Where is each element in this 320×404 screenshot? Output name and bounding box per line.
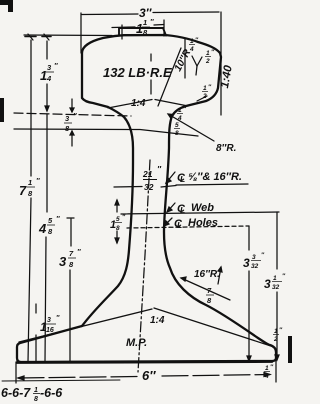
svg-text:6″: 6″ [142,368,156,383]
svg-text:″: ″ [77,247,81,256]
right extension vertical (1:40 ref) [220,12,222,115]
svg-text:1: 1 [178,107,182,114]
head underside slope ext right [155,100,188,107]
svg-text:1: 1 [136,22,143,36]
svg-text:8: 8 [175,130,179,137]
7/8 arrow [218,267,221,284]
CL holes line [127,226,249,228]
svg-text:32: 32 [272,284,280,291]
svg-text:8: 8 [34,396,38,403]
chain line 7-1/8 [30,40,32,176]
svg-text:″: ″ [157,164,162,174]
label 1/2 lower [202,84,212,100]
10R leader slant [158,48,181,106]
dim 3/8 arrows [71,99,73,112]
svg-text:″: ″ [208,84,212,91]
svg-text:1: 1 [274,328,278,335]
svg-text:132 LB·R.E: 132 LB·R.E [103,65,172,80]
svg-text:8: 8 [116,225,120,232]
svg-text:Holes: Holes [188,217,218,229]
arrow of 5/8 & 16R label [166,172,175,183]
svg-text:L: L [180,174,185,184]
head brand boss [119,28,166,36]
svg-text:2: 2 [273,336,278,343]
head top extension line [24,34,112,37]
svg-text:3: 3 [65,114,70,123]
svg-text:⅝″& 16″R.: ⅝″& 16″R. [188,171,242,183]
label 21/32 web [142,164,162,192]
label 3-1/32 [264,273,286,291]
svg-text:3: 3 [252,254,256,261]
dim 3-3/32 vertical [248,226,250,250]
label 7/8 base [206,286,214,305]
svg-text:7: 7 [19,183,27,198]
label 1/2 corner upper [205,49,215,65]
label 3-7/8 [59,247,81,269]
svg-text:1: 1 [206,50,210,57]
head underside slope ext left [108,100,152,109]
svg-text:″: ″ [279,327,283,334]
svg-text:″: ″ [122,214,126,221]
svg-text:8″R.: 8″R. [216,143,236,154]
svg-text:8: 8 [69,260,74,269]
label 1-1/8 [136,17,154,37]
fishing line lower [14,129,198,136]
svg-text:3: 3 [47,317,51,324]
svg-text:6-6-7: 6-6-7 [1,386,31,400]
web thickness ticks 21/32 [114,186,142,189]
svg-text:3: 3 [264,277,271,291]
label CL Web [177,202,214,215]
label drilling 6-6-7-1/8-6-6 [1,386,63,403]
svg-text:″: ″ [211,49,215,56]
right base extension [275,361,277,382]
svg-text:4: 4 [46,74,52,83]
svg-text:3: 3 [47,63,52,72]
dim 1-5/8 web vertical [116,200,118,212]
16in R leader [181,278,230,300]
svg-text:1: 1 [265,365,269,372]
head centerline dashes [150,54,152,61]
svg-text:1: 1 [143,18,147,27]
dim 1-1/8 lines [112,26,135,29]
svg-text:″: ″ [261,252,265,259]
label 1-3/4 [40,61,58,83]
label 5/8 under head [174,122,180,137]
svg-text:1:4: 1:4 [150,315,165,326]
label 3/8 fishing [64,111,77,133]
svg-text:1: 1 [28,178,32,187]
svg-text:21: 21 [142,169,153,179]
svg-text:″: ″ [56,214,60,223]
svg-text:″: ″ [56,315,60,322]
tick over 1-3/4 chain [42,36,51,38]
rail profile outline [17,35,276,362]
label CL Holes [174,217,218,230]
svg-text:″: ″ [150,17,154,26]
extra faint line bottom left [2,380,120,381]
svg-text:8: 8 [48,227,53,236]
scan artifact left edge [0,98,4,122]
svg-text:4: 4 [264,373,269,380]
svg-text:4: 4 [177,115,182,122]
fishing line upper [14,113,131,116]
svg-text:″: ″ [73,111,77,120]
label 1/4 corner [189,37,199,53]
svg-text:5: 5 [48,216,53,225]
chain line 3-7/8 [67,217,74,219]
svg-text:32: 32 [144,182,154,192]
corner detail vertical [184,39,186,78]
dim line 1-7/8 base [35,304,37,313]
dim 3in lines [82,13,138,16]
svg-text:1: 1 [34,387,38,394]
svg-text:″: ″ [54,61,58,70]
CL web line [121,212,279,214]
svg-text:1:4: 1:4 [131,98,146,109]
tick over 7-1/8 chain [25,36,36,38]
svg-text:″: ″ [282,273,286,280]
svg-text:1: 1 [190,38,194,45]
svg-text:-6-6: -6-6 [40,386,63,400]
corner arrows V [192,56,197,66]
svg-text:M.P.: M.P. [126,337,147,349]
scan artifact right edge [288,336,292,363]
svg-text:1: 1 [273,275,277,282]
label 1/2 base tip [273,327,283,343]
svg-text:2: 2 [205,58,210,65]
svg-text:L: L [180,205,185,215]
svg-text:7: 7 [69,249,74,258]
base bottom edge [17,362,272,363]
label 1/4 below base [264,364,274,380]
base top slope line right 1:4 [154,308,274,347]
svg-text:8: 8 [65,124,70,133]
svg-text:″: ″ [36,176,40,185]
dim 3-1/32 vertical [276,212,278,269]
centerline of rail [138,160,150,372]
underline of 5/8 & 16R label [176,184,248,185]
svg-text:″: ″ [270,364,274,371]
svg-text:4: 4 [189,46,194,53]
svg-text:3: 3 [59,254,67,269]
label CL 5/8 & 16R [177,171,242,184]
svg-text:L: L [177,220,182,230]
svg-text:8: 8 [28,189,33,198]
label 3-3/32 [243,252,265,270]
svg-text:Web: Web [191,202,214,214]
svg-text:2: 2 [202,93,207,100]
label 4-5/8 [38,214,60,236]
label 1-5/8 web dim [110,214,126,232]
left base extension [15,362,17,383]
half-inch tick [197,96,207,101]
arrow of CL holes label [164,218,172,226]
svg-text:3: 3 [243,256,250,270]
arrow of CL web label [167,203,175,212]
label 1-7/8 base [40,315,60,334]
base top slope line left 1:4 [19,309,152,342]
svg-text:16: 16 [46,327,54,334]
6in dim line [18,377,138,379]
chain line 1-3/4 / 4-5/8 [46,41,48,59]
label 1/4 under head [177,106,187,122]
svg-text:16″R.: 16″R. [194,269,220,280]
svg-text:5: 5 [116,216,120,223]
8in R leader [168,114,214,141]
svg-text:5: 5 [175,122,179,129]
label 7-1/8 [19,176,40,198]
svg-text:8: 8 [207,296,212,305]
svg-text:4: 4 [38,221,47,236]
svg-text:1: 1 [203,85,207,92]
svg-text:32: 32 [251,263,259,270]
scan artifact top-left [0,0,9,5]
svg-text:7: 7 [207,286,212,295]
